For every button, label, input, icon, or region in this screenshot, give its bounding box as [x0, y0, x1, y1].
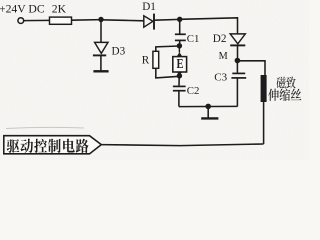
svg-text:C1: C1: [187, 33, 200, 45]
node M junction: [235, 58, 241, 64]
svg-text:D1: D1: [142, 1, 156, 13]
bottom rail wire: [101, 144, 263, 146]
callout box drive control circuit: [4, 136, 102, 154]
wire element down: [263, 102, 265, 144]
input terminal +24V DC: [18, 18, 24, 24]
diode D2: [230, 34, 245, 44]
svg-text:R: R: [142, 55, 150, 67]
wire: [24, 19, 50, 21]
node junction top of C1: [177, 17, 182, 22]
ground bar: [201, 117, 218, 119]
ground under D3: [93, 70, 108, 72]
wire bottom of C2 to bottom of C3: [179, 105, 238, 107]
svg-text:C3: C3: [214, 72, 227, 84]
resistor 2K: [50, 17, 72, 24]
svg-text:M: M: [219, 51, 228, 62]
node junction mid-bottom: [205, 104, 211, 110]
diode D1: [144, 16, 153, 27]
element E box: [173, 57, 187, 72]
resistor R: [153, 51, 159, 68]
wire: [72, 19, 102, 22]
svg-text:E: E: [177, 56, 184, 72]
wire junction to R: [156, 46, 180, 51]
callout text 驱动控制电路: [7, 139, 20, 153]
wire D3 to ground: [100, 55, 102, 70]
diode D3: [95, 42, 108, 53]
element E top arrow: [178, 46, 180, 53]
node junction after 2K: [98, 17, 103, 22]
capacitor C3: [236, 61, 238, 73]
capacitor C1: [179, 19, 181, 33]
node junction below E: [177, 73, 182, 78]
element E bottom arrow: [177, 72, 182, 75]
wire D2 to node M: [237, 45, 239, 60]
node junction below C1: [177, 43, 182, 48]
wire node M to element: [237, 61, 265, 75]
svg-text:+24V DC: +24V DC: [0, 2, 45, 15]
ground stub: [207, 106, 209, 117]
wire R to bottom junction: [156, 68, 180, 78]
capacitor C2: [178, 76, 180, 86]
wire: [101, 20, 144, 21]
svg-text:2K: 2K: [52, 2, 67, 15]
label magnetostrictive wire 磁致伸缩丝: [277, 77, 286, 89]
magnetostrictive wire element: [261, 75, 267, 102]
faint scan artifact line: [6, 127, 84, 128]
wire: [155, 18, 180, 21]
svg-text:C2: C2: [187, 85, 200, 97]
svg-text:D2: D2: [213, 33, 227, 45]
wire down to D3: [100, 20, 102, 43]
wire to D2: [180, 18, 238, 34]
svg-text:D3: D3: [112, 45, 126, 57]
